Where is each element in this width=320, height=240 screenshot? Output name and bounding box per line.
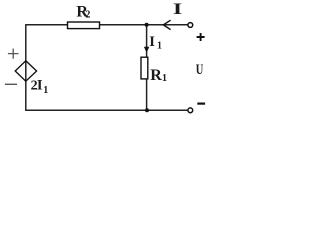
wire bottom segment (25, 109, 187, 111)
node junction dot bottom (145, 108, 149, 112)
label 2I1 (source value) (31, 78, 49, 96)
polarity plus left (source) (8, 49, 19, 59)
node junction dot top (145, 23, 149, 27)
resistor R1 (141, 57, 148, 79)
resistor R2 (68, 22, 100, 29)
wire left branch (25, 24, 27, 110)
label R2 (76, 4, 90, 21)
svg-text:1: 1 (157, 41, 162, 52)
label U (port voltage) (196, 60, 204, 77)
svg-text:I: I (149, 34, 155, 50)
polarity plus right (port) (197, 33, 205, 41)
svg-text:U: U (196, 60, 204, 77)
svg-text:I: I (173, 1, 182, 18)
polarity minus left (source) (5, 83, 17, 85)
label R1 (150, 67, 167, 84)
wire top-left segment (26, 24, 68, 26)
wire middle branch lower (146, 79, 148, 110)
svg-text:2: 2 (85, 10, 90, 21)
wire middle branch upper (146, 25, 148, 57)
svg-text:I: I (37, 78, 43, 94)
polarity minus right (port) (197, 102, 205, 104)
terminal circle top-right (188, 23, 193, 28)
label I (top current) (173, 1, 182, 18)
wire top-right segment (100, 24, 188, 26)
dependent source U1 (diamond, 2I1 CCVS) (15, 61, 36, 81)
current arrow I1 (down arrowhead on middle branch) (144, 47, 149, 53)
label I1 (branch current) (149, 34, 162, 52)
terminal circle bottom-right (188, 108, 193, 113)
current arrow I (left chevron on top wire) (163, 20, 170, 29)
svg-text:1: 1 (43, 85, 48, 96)
svg-text:1: 1 (162, 73, 167, 84)
svg-text:R: R (150, 67, 162, 84)
